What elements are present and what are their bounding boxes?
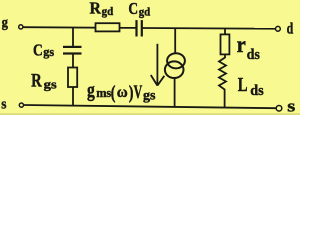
svg-text:V: V: [134, 82, 143, 103]
svg-text:gs: gs: [43, 45, 54, 59]
svg-text:g: g: [87, 80, 95, 102]
svg-text:R: R: [90, 0, 102, 18]
svg-text:d: d: [287, 21, 294, 38]
svg-text:ds: ds: [250, 83, 264, 99]
svg-text:ds: ds: [247, 47, 260, 63]
svg-text:s: s: [287, 97, 295, 115]
svg-text:gs: gs: [143, 88, 156, 103]
svg-text:ms: ms: [96, 85, 111, 100]
svg-text:r: r: [237, 32, 246, 57]
svg-text:gd: gd: [139, 4, 151, 18]
svg-text:C: C: [128, 0, 138, 18]
svg-text:g: g: [2, 15, 9, 31]
svg-text:L: L: [238, 74, 248, 96]
svg-text:(: (: [111, 82, 116, 103]
svg-text:R: R: [31, 72, 42, 92]
svg-text:s: s: [1, 96, 6, 112]
svg-text:gs: gs: [44, 76, 57, 91]
svg-text:C: C: [33, 40, 43, 59]
svg-text:gd: gd: [102, 4, 114, 18]
svg-text:ω: ω: [117, 84, 128, 101]
